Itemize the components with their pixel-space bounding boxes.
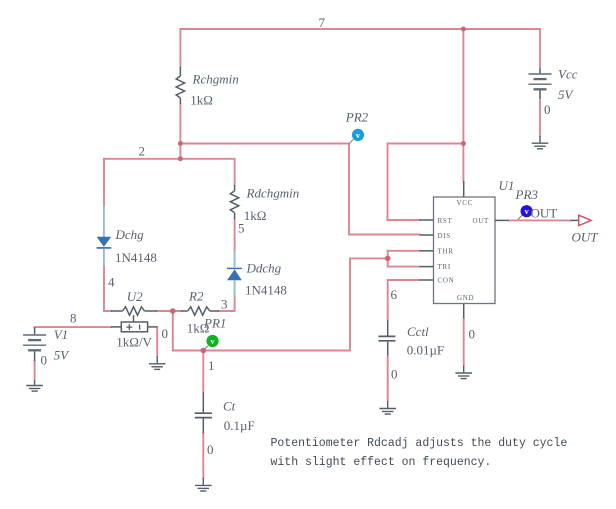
svg-text:1kΩ: 1kΩ	[244, 208, 267, 223]
svg-text:RST: RST	[438, 217, 453, 225]
svg-text:TRI: TRI	[438, 263, 451, 271]
svg-text:OUT: OUT	[473, 217, 490, 225]
svg-text:1kΩ: 1kΩ	[190, 93, 213, 108]
svg-text:OUT: OUT	[572, 230, 599, 245]
svg-text:0: 0	[207, 442, 214, 457]
svg-text:Ct: Ct	[223, 399, 236, 414]
svg-text:DIS: DIS	[438, 232, 451, 240]
svg-text:Potentiometer Rdcadj adjusts t: Potentiometer Rdcadj adjusts the duty cy…	[271, 437, 568, 450]
svg-text:0: 0	[469, 327, 476, 342]
svg-text:V1: V1	[54, 327, 68, 342]
svg-text:1kΩ/V: 1kΩ/V	[116, 335, 152, 350]
svg-text:CON: CON	[438, 277, 455, 285]
svg-text:Cctl: Cctl	[407, 324, 429, 339]
svg-text:with slight effect on frequenc: with slight effect on frequency.	[271, 456, 492, 469]
svg-text:0: 0	[391, 367, 398, 382]
svg-text:4: 4	[108, 275, 115, 290]
svg-text:Rchgmin: Rchgmin	[192, 72, 239, 87]
svg-text:GND: GND	[457, 294, 474, 302]
svg-text:VCC: VCC	[457, 199, 474, 207]
svg-text:PR3: PR3	[515, 187, 539, 202]
svg-text:6: 6	[391, 287, 398, 302]
svg-text:U2: U2	[127, 289, 143, 304]
svg-text:0.1µF: 0.1µF	[224, 418, 255, 433]
svg-text:2: 2	[139, 144, 146, 159]
svg-text:0: 0	[162, 326, 169, 341]
svg-text:THR: THR	[438, 248, 454, 256]
svg-text:1: 1	[208, 358, 215, 373]
svg-text:v: v	[524, 206, 529, 216]
svg-text:Vcc: Vcc	[558, 67, 578, 82]
svg-text:PR2: PR2	[345, 110, 369, 125]
svg-text:5V: 5V	[54, 348, 70, 363]
svg-text:0.01µF: 0.01µF	[407, 343, 444, 358]
svg-text:Dchg: Dchg	[115, 227, 145, 242]
svg-text:OUT: OUT	[531, 206, 558, 221]
svg-text:PR1: PR1	[203, 316, 226, 331]
svg-text:R2: R2	[188, 289, 204, 304]
svg-text:1N4148: 1N4148	[245, 283, 287, 298]
svg-text:7: 7	[319, 15, 326, 30]
svg-text:0: 0	[544, 102, 551, 117]
svg-text:U1: U1	[499, 178, 515, 193]
svg-text:Ddchg: Ddchg	[246, 261, 282, 276]
svg-text:Rdchgmin: Rdchgmin	[246, 186, 300, 201]
svg-text:5V: 5V	[558, 87, 575, 102]
svg-text:8: 8	[70, 311, 77, 326]
svg-text:3: 3	[221, 297, 228, 312]
svg-text:0: 0	[41, 353, 48, 368]
svg-text:1N4148: 1N4148	[115, 250, 157, 265]
